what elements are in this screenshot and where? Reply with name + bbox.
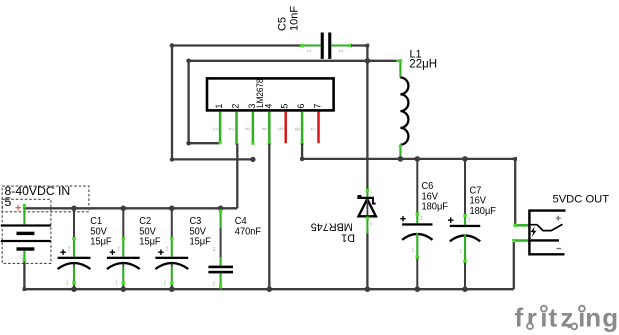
svg-text:1: 1 (115, 280, 118, 286)
capacitor C2 top lead (117, 209, 125, 257)
inductor L1 top lead (green) (396, 59, 402, 77)
inductor L1 bottom lead (green) (399, 145, 402, 159)
svg-text:1: 1 (164, 280, 167, 286)
svg-text:6: 6 (296, 104, 306, 109)
IC pin 4 leg (green) (268, 112, 271, 144)
node: C6 bottom junction (415, 286, 421, 292)
svg-text:2: 2 (213, 247, 216, 253)
capacitor C1 plus (60, 250, 65, 255)
svg-text:5: 5 (5, 195, 12, 209)
connector J1 lightning bolt (531, 227, 537, 237)
capacitor C2 plus (110, 250, 115, 255)
label C5 value (276, 6, 300, 31)
capacitor C1 top lead (68, 209, 76, 257)
svg-text:4: 4 (263, 104, 273, 109)
IC pin 6 leg (green) (301, 112, 304, 144)
IC pin 3 leg (green) (252, 112, 255, 144)
svg-text:2: 2 (68, 247, 71, 253)
node: C7 top junction (462, 156, 468, 162)
label C3 (190, 216, 211, 248)
diode D1 top lead (366, 61, 369, 198)
wire: ground bottom bus (23, 241, 514, 290)
svg-text:8-40VDC IN: 8-40VDC IN (5, 184, 71, 198)
capacitor C3 plus (158, 250, 163, 255)
node: C4 top junction (218, 206, 224, 212)
inductor L1 coil (400, 78, 408, 145)
node: C1 bottom junction (71, 286, 77, 292)
capacitor C6 plates (402, 223, 432, 240)
fritzing logo z-tail extension (568, 324, 574, 328)
fritzing logo rings (527, 306, 585, 330)
svg-text:MBR745: MBR745 (311, 221, 353, 233)
node: C3 top junction (169, 206, 175, 212)
svg-text:15μF: 15μF (139, 236, 160, 248)
battery V1 bottom lead (19, 251, 26, 291)
svg-text:1: 1 (412, 248, 415, 254)
capacitor C4 bottom lead (212, 247, 222, 289)
label C6 (422, 181, 448, 213)
label D1 pin marks (370, 190, 373, 228)
svg-text:1: 1 (307, 49, 313, 52)
connector J1 plus mark (556, 216, 561, 221)
svg-text:2: 2 (468, 217, 471, 223)
battery V1 dashed outline (label box) (2, 186, 89, 212)
capacitor C2 bottom lead (115, 264, 125, 290)
diode D1 bottom lead (366, 217, 369, 290)
diode D1 triangle (anode) (359, 199, 376, 216)
node: C1 top junction (71, 206, 77, 212)
capacitor C3 plates (155, 257, 188, 269)
battery V1 dashed outline (symbol box) (2, 199, 51, 263)
label C4 (235, 216, 261, 238)
capacitor C6 bottom lead (412, 216, 424, 289)
capacitor C6 top lead (416, 160, 419, 224)
IC pin 5 leg (red, unconnected) (284, 112, 287, 144)
svg-text:2: 2 (166, 247, 169, 253)
connector J1 minus mark (557, 248, 562, 250)
node: L1 bottom junction (398, 156, 404, 162)
svg-text:10nF: 10nF (288, 6, 300, 31)
svg-text:470nF: 470nF (235, 226, 261, 238)
wire: switch node horizontal (to L1 top) (186, 59, 396, 146)
svg-text:2: 2 (231, 104, 241, 109)
wire: output + green stub to connector (513, 224, 529, 227)
svg-text:5VDC OUT: 5VDC OUT (553, 193, 610, 205)
node: IC pin 4 ground junction (267, 286, 273, 292)
node: D1 bottom junction (365, 286, 371, 292)
capacitor C2 plates (107, 257, 140, 269)
IC pin 2 leg (green) (235, 112, 238, 144)
svg-text:2: 2 (212, 282, 215, 288)
svg-text:2: 2 (117, 247, 120, 253)
svg-text:1: 1 (214, 104, 224, 109)
capacitor C7 plus (448, 218, 453, 223)
svg-text:D1: D1 (341, 231, 355, 243)
IC pin 1 leg (green) (219, 112, 222, 144)
node: C2 bottom junction (121, 286, 127, 292)
capacitor C7 top lead (463, 160, 466, 225)
capacitor C5 right pin (green) (331, 44, 352, 47)
capacitor C6 plus (400, 216, 405, 221)
wire: output bus from IC pin 6 to 5VDC OUT (300, 144, 517, 226)
connector J1 plug wave (529, 224, 562, 230)
capacitor C5 left pin (green) (300, 44, 321, 47)
capacitor C3 bottom lead (164, 264, 174, 290)
capacitor C5 plates (321, 33, 324, 59)
wire: input bus (8-40VDC to IC pin 2) (23, 144, 237, 209)
capacitor C7 plates (450, 225, 480, 242)
wire: top horizontal to C5 left (node CB) (170, 43, 303, 162)
svg-text:1: 1 (66, 280, 69, 286)
svg-text:1: 1 (459, 249, 462, 255)
svg-text:22μH: 22μH (409, 59, 437, 71)
svg-text:180μF: 180μF (422, 201, 448, 213)
capacitor C1 plates (58, 257, 91, 269)
svg-text:15μF: 15μF (190, 236, 211, 248)
connector J1 5VDC OUT outline (529, 211, 565, 255)
label L1 (409, 48, 437, 70)
svg-text:5: 5 (280, 104, 290, 109)
label D1 designator (rotated 180) (311, 221, 355, 244)
svg-text:o: o (370, 222, 373, 228)
node: C3 bottom junction (169, 286, 175, 292)
node: C6 top junction (415, 156, 421, 162)
svg-text:180μF: 180μF (470, 205, 496, 217)
IC U1 LM2678 body (207, 78, 334, 110)
node: C7 bottom junction (462, 286, 468, 292)
node: C2 top junction (121, 206, 127, 212)
diode D1 lead through triangle (366, 199, 368, 216)
capacitor C4 top lead (219, 209, 222, 266)
node: switch node junction at C5 right / D1 / L1 (365, 58, 371, 64)
IC pin 7 leg (red, unconnected) (317, 112, 320, 144)
svg-text:2: 2 (339, 49, 345, 52)
wire: IC pin 4 to ground bus (268, 144, 270, 290)
capacitor C3 top lead (166, 209, 174, 257)
wire: C5 right to switch node (351, 44, 369, 61)
capacitor C1 bottom lead (66, 264, 76, 290)
svg-text:LM2678: LM2678 (254, 79, 265, 108)
battery V1 plus mark (red) (16, 205, 22, 210)
svg-text:2: 2 (420, 216, 423, 222)
svg-text:C5: C5 (276, 17, 288, 31)
connector J1 minus line (529, 239, 559, 241)
battery V1 top lead (green) (23, 204, 26, 224)
label C7 (470, 185, 496, 217)
svg-text:7: 7 (313, 104, 323, 109)
label C1 (90, 216, 111, 248)
wire: output - green stub to connector (512, 239, 529, 242)
svg-text:-1: -1 (19, 255, 24, 261)
label C2 (139, 216, 160, 248)
capacitor C7 bottom lead (459, 217, 471, 289)
svg-text:3: 3 (247, 104, 257, 109)
battery V1 plates (1, 224, 51, 250)
capacitor C4 plates (208, 266, 233, 274)
diode D1 schottky cathode bar (358, 196, 375, 204)
svg-text:15μF: 15μF (90, 236, 111, 248)
